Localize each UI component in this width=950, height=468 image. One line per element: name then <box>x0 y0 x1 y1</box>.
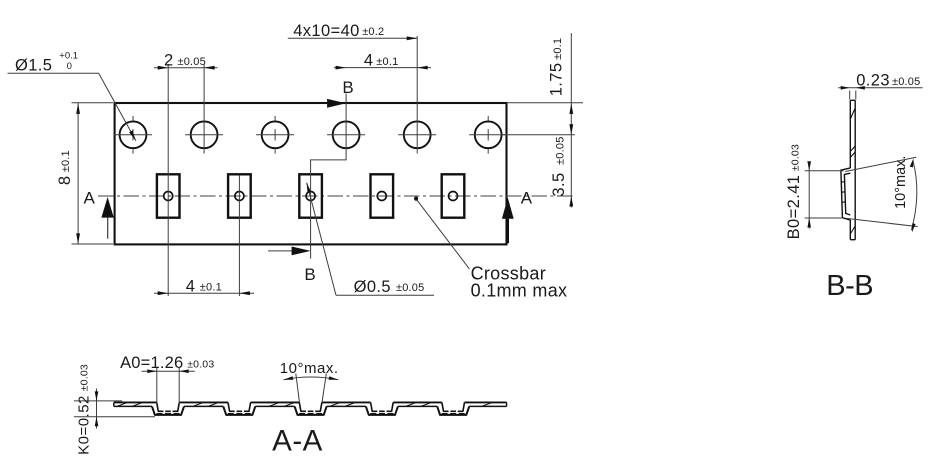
svg-text:A-A: A-A <box>272 425 323 458</box>
svg-text:0.23: 0.23 <box>856 72 890 90</box>
svg-text:B0=2.41: B0=2.41 <box>785 175 803 240</box>
dimension K0=0.52 ±0.03 (pocket depth) <box>74 400 122 402</box>
svg-text:0: 0 <box>67 61 72 72</box>
sprocket hole 3 (circle d1.5) <box>262 121 289 148</box>
B-B pocket hole edge ticks <box>841 181 845 184</box>
A-A pocket 2 depression <box>223 406 255 415</box>
svg-text:10°max.: 10°max. <box>893 156 909 209</box>
svg-text:K0=0.52: K0=0.52 <box>75 395 92 455</box>
svg-text:4x10=40: 4x10=40 <box>293 22 360 40</box>
svg-text:10°max.: 10°max. <box>280 360 339 377</box>
svg-text:8: 8 <box>56 176 74 186</box>
A-A pocket 4 depression <box>366 406 398 415</box>
A-A pocket 5 depression <box>437 406 469 415</box>
dimension 8 ±0.1 (tape width) <box>72 102 114 104</box>
svg-text:±0.1: ±0.1 <box>200 282 222 294</box>
dimension 1.75 ±0.1 (top edge to hole center) <box>507 102 584 104</box>
section B cutting line (stepped) <box>311 94 347 259</box>
A-A section: tape band cross-section <box>114 401 507 403</box>
svg-text:±0.05: ±0.05 <box>555 136 567 164</box>
pocket 2 center hole d0.5 <box>235 192 244 201</box>
pocket 1 (rect) <box>157 174 180 217</box>
section A arrow right <box>502 198 514 219</box>
pocket 5 center hole d0.5 <box>449 192 458 201</box>
sprocket hole 4 (circle d1.5) <box>333 121 360 148</box>
A-A draft angle 10°max indication <box>296 374 300 403</box>
svg-text:4: 4 <box>186 277 196 295</box>
sprocket hole 1 (circle d1.5) <box>120 121 147 148</box>
pocket 1 center hole d0.5 <box>164 192 173 201</box>
dimension 4 ±0.1 top <box>334 67 431 69</box>
svg-text:A: A <box>84 189 96 208</box>
svg-text:±0.03: ±0.03 <box>187 358 214 370</box>
pocket 4 center hole d0.5 <box>377 192 386 201</box>
A-A pocket 3 depression <box>295 406 327 415</box>
A-A pocket 1 depression <box>152 406 184 415</box>
svg-text:Ø0.5: Ø0.5 <box>354 278 391 296</box>
tape outline <box>115 103 507 244</box>
svg-text:A: A <box>521 188 533 207</box>
svg-text:±0.1: ±0.1 <box>376 56 398 68</box>
sprocket hole 2 (circle d1.5) <box>191 121 218 148</box>
sprocket hole 6 (circle d1.5) <box>475 121 502 148</box>
B-B pocket bulge outer <box>841 168 850 220</box>
B-B pocket bulge inner <box>844 173 850 215</box>
svg-text:B: B <box>304 265 315 284</box>
pocket 2 (rect) <box>228 174 251 217</box>
svg-text:4: 4 <box>364 52 374 70</box>
svg-text:±0.1: ±0.1 <box>552 38 564 60</box>
dimension 0.23 ±0.05 (tape thickness) <box>849 91 851 100</box>
svg-text:±0.2: ±0.2 <box>362 26 384 38</box>
pocket 5 (rect) <box>442 174 465 217</box>
svg-text:Ø1.5: Ø1.5 <box>15 56 52 74</box>
svg-text:B-B: B-B <box>826 270 873 302</box>
section B arrow bottom <box>268 250 295 252</box>
B-B strip hatch marks <box>850 108 855 119</box>
svg-text:±0.05: ±0.05 <box>396 282 424 294</box>
B-B draft angle 10°max indication <box>845 157 916 171</box>
dimension A0=1.26 ±0.03 (pocket width) <box>156 368 158 404</box>
A-A band hatch <box>118 403 492 406</box>
svg-text:±0.05: ±0.05 <box>892 76 920 88</box>
svg-text:±0.03: ±0.03 <box>79 364 91 391</box>
svg-text:B: B <box>342 78 353 97</box>
dimension 4 ±0.1 bottom (pocket pitch) <box>238 175 240 296</box>
pocket 3 center hole d0.5 <box>306 192 315 201</box>
pocket 3 (rect) <box>299 174 322 217</box>
dimension B0=2.41 ±0.03 (pocket length) <box>805 170 844 172</box>
dimension 2 ±0.05 (pocket to sprocket hole offset) <box>167 64 169 296</box>
svg-text:±0.05: ±0.05 <box>178 56 206 68</box>
svg-text:±0.1: ±0.1 <box>60 150 72 172</box>
sprocket hole 5 (circle d1.5) <box>404 121 431 148</box>
svg-text:3.5: 3.5 <box>550 172 568 196</box>
svg-text:±0.03: ±0.03 <box>790 144 802 171</box>
svg-text:A0=1.26: A0=1.26 <box>120 354 183 372</box>
section A arrow left <box>101 197 113 218</box>
section B arrow top <box>327 99 346 108</box>
B-B section: tape strip cross-section <box>849 100 851 168</box>
svg-text:2: 2 <box>164 52 174 70</box>
svg-text:1.75: 1.75 <box>548 63 566 97</box>
svg-text:0.1mm max: 0.1mm max <box>471 280 568 300</box>
pocket 4 (rect) <box>371 174 394 217</box>
centerline A-A (dash-dot) <box>98 195 575 197</box>
dimension 3.5 ±0.05 (hole center to pocket center) <box>569 196 573 207</box>
dimension 4x10=40 ±0.2 <box>416 36 418 154</box>
